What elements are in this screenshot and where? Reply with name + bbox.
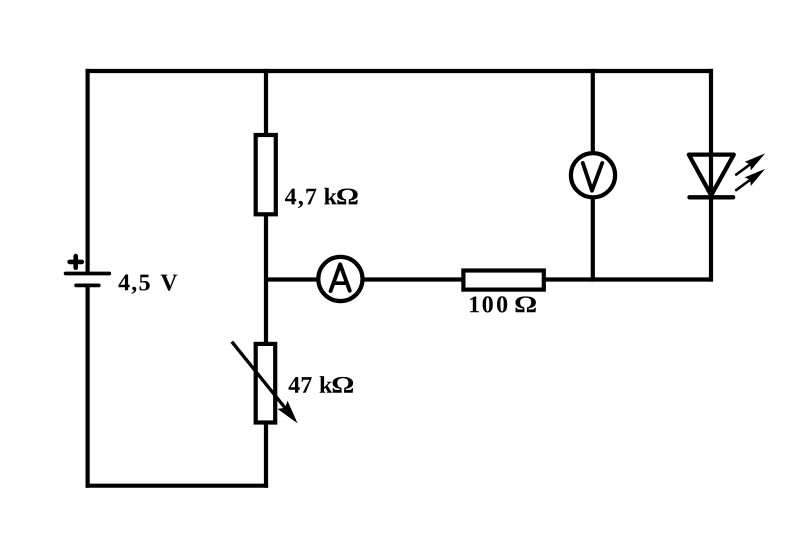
battery 4,5 V [66, 256, 110, 285]
resistor value label 4,7 kOhm [285, 188, 358, 208]
wire middle horizontal center (ammeter to 100 ohm) [364, 277, 463, 281]
wire voltmeter branch lower [591, 196, 595, 282]
resistor 4,7 kOhm [256, 135, 276, 214]
ammeter A [318, 257, 362, 301]
resistor value label 100 Ohm [470, 296, 536, 312]
wire left vertical lower [85, 286, 89, 488]
LED light arrow 1 [736, 153, 765, 174]
wire LED branch [709, 69, 713, 282]
battery value label 4,5 V [118, 275, 177, 295]
variable resistor value label 47 kOhm [289, 376, 354, 393]
wire bottom horizontal [86, 484, 269, 488]
wire middle branch between resistors [264, 214, 268, 344]
wire middle horizontal right (100 ohm to LED branch) [544, 277, 713, 281]
wire voltmeter branch upper [591, 69, 595, 154]
LED [689, 155, 734, 198]
wire middle branch top [264, 69, 268, 136]
LED light arrow 2 [736, 169, 765, 190]
wire left vertical upper [85, 69, 89, 272]
resistor 100 Ohm [463, 271, 543, 290]
variable resistor 47 kOhm [232, 342, 298, 424]
voltmeter V [571, 153, 615, 197]
wire middle branch bottom [264, 423, 268, 488]
wire top horizontal [86, 69, 714, 73]
wire middle horizontal left (node to ammeter) [266, 277, 317, 281]
